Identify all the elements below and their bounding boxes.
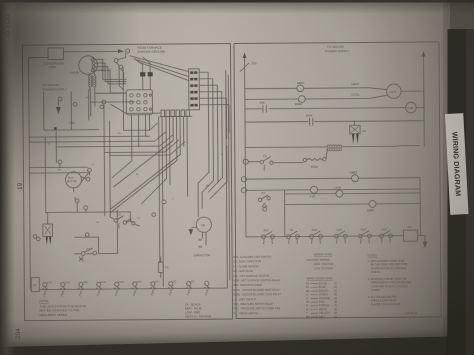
top-left corner shadow [0, 0, 180, 215]
left diagram outer border [22, 44, 232, 321]
wires fanning from chassis ground to strip [130, 55, 188, 80]
wires into capacitor from bundle [198, 146, 228, 217]
inline terminal circles on drops [162, 200, 166, 204]
motor lead terminal row [39, 288, 211, 289]
terminal strip TB1 [189, 69, 200, 110]
motor lead 7 [150, 282, 159, 296]
rung heat: wire [245, 88, 387, 91]
tiny wire tag labels [47, 57, 223, 224]
right diagram outer border [234, 42, 441, 319]
safety switch TO [286, 228, 299, 244]
wires lower mid [104, 104, 134, 254]
safety switch AGS4 [379, 227, 392, 243]
MAIN SCHEMATIC GROUP [22, 42, 441, 321]
fuse F1 [158, 257, 169, 278]
pressure switch P2 [258, 191, 270, 211]
long horizontals mid box [29, 167, 130, 213]
bottom black strip [0, 336, 474, 355]
blower motor BLO [65, 172, 81, 188]
label to power supply right [325, 45, 350, 54]
capacitor circle CB [189, 217, 212, 257]
top dark edge [0, 0, 474, 3]
wire verticals mid [45, 130, 57, 212]
wiring code block [307, 252, 334, 270]
rung cool: wire [245, 95, 387, 99]
arrow to ground [118, 49, 124, 53]
transformer TR [327, 145, 342, 151]
transformer T1 [88, 73, 134, 120]
cool relay FLR circle [406, 102, 424, 113]
motor lead 2 [60, 282, 71, 296]
label to power supply [42, 83, 67, 92]
right rail arrow [422, 51, 426, 57]
safety switch AGS3 [358, 227, 371, 243]
primary line rung [245, 146, 419, 148]
sub rung HOR [284, 185, 420, 237]
label from furnace chassis ground [137, 46, 166, 54]
low voltage rung LS [243, 154, 303, 171]
safety switch AGS2 [334, 227, 347, 243]
left dark edge [0, 0, 15, 355]
left rail L1 [245, 58, 246, 237]
rung P/R: wire [245, 108, 405, 109]
horizontal connector strip [160, 110, 192, 117]
motor lead 6 [132, 282, 143, 296]
notes block [368, 253, 412, 306]
thermostat T'STAT circle [70, 56, 105, 75]
junction dot [54, 127, 57, 130]
rung P1R [241, 185, 420, 198]
relay coil EBR1 [297, 81, 305, 92]
condensing unit box [43, 48, 65, 69]
blower relay box [126, 90, 152, 115]
rung HUM: wire [245, 121, 424, 122]
fusible link F1SD [303, 149, 327, 169]
humidifier plug P1 [43, 212, 53, 245]
power feed lines [44, 92, 99, 131]
WIRING DIAGRAM side tab [445, 29, 474, 355]
blower relay GLR circle [387, 84, 402, 99]
motor lead 4 [96, 282, 107, 296]
right rail L2 [423, 57, 426, 147]
sub rung EBR1 coil [285, 200, 421, 213]
power feed terminal circles [58, 97, 62, 101]
abbreviation legend list [233, 255, 281, 316]
wire color code block [306, 276, 338, 319]
safety switch ALS [261, 228, 274, 244]
wires descending from connector strip [110, 116, 188, 287]
right return vertical [419, 178, 421, 236]
bottom rung wire [246, 236, 403, 237]
wires from relay box bottom [111, 115, 149, 178]
motor lead 3 [78, 282, 89, 296]
wires ground circle down [116, 53, 126, 72]
junction circles under ground [114, 59, 118, 63]
wire bottom right rise [210, 70, 228, 288]
note text [39, 299, 86, 317]
LW switch box [31, 278, 39, 292]
wire left rail [29, 57, 50, 289]
motor lead 5 [114, 282, 125, 296]
motor wires [60, 164, 90, 213]
right margin dark area beyond paper [443, 0, 474, 355]
terminal circle mid [102, 100, 106, 104]
motor color code [185, 302, 212, 318]
rung EBR2 coil [241, 170, 420, 183]
safety switch AGS1 [309, 228, 322, 244]
relay coil EBR3 [298, 96, 305, 103]
limit switch LS left [114, 212, 139, 228]
right rail lower segment [423, 91, 425, 121]
wire condensing unit to chassis ground [63, 50, 122, 52]
wire GLR to right rail [401, 90, 424, 92]
white label on tab [445, 113, 469, 215]
tstat wire drops [103, 59, 127, 93]
motor terminals [58, 160, 62, 164]
staircase wires to left rail [29, 66, 185, 156]
wires tstat bundle to relay box [119, 65, 124, 90]
quick connect terminals [140, 72, 145, 76]
motor lead 10 [204, 281, 210, 295]
left rail arrow [243, 52, 247, 58]
page furniture [6, 14, 25, 339]
gas valve GV box [403, 225, 427, 248]
wires to quick connects [135, 57, 151, 90]
contact HUM [306, 114, 313, 126]
contact P/R [260, 101, 266, 113]
rail connector circles [33, 235, 37, 239]
wires from thermostat terminals [94, 59, 110, 70]
motor lead 9 [186, 280, 195, 295]
bottom shadow band [0, 312, 474, 355]
wire color code leader lines [311, 284, 318, 317]
black tab bar [448, 29, 467, 355]
disconnect slash DIS [240, 63, 249, 72]
wires from strip right side descending [199, 72, 229, 172]
motor lead 1 [42, 281, 53, 296]
power feed arrow down [57, 101, 59, 106]
pressure switch PS rung [74, 233, 117, 262]
ground terminal circle [126, 49, 130, 53]
motor lead 8 [168, 281, 177, 295]
humidifier plug HU2 [350, 121, 367, 144]
